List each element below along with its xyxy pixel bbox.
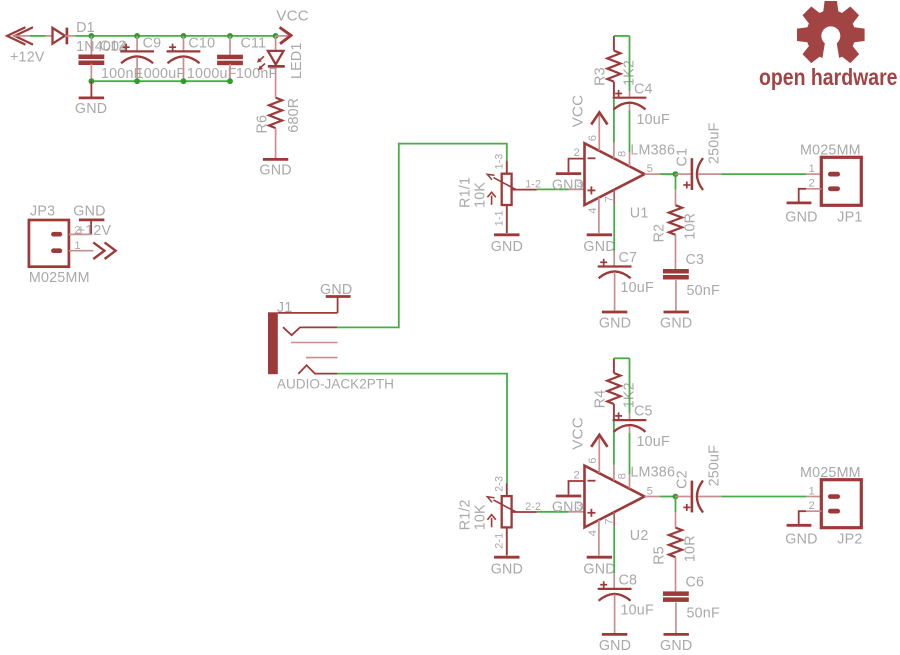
resistor R4 bbox=[607, 358, 620, 419]
svg-text:C9: C9 bbox=[143, 36, 162, 52]
svg-text:C3: C3 bbox=[686, 252, 705, 268]
svg-text:C4: C4 bbox=[634, 81, 653, 97]
connector JP2 box bbox=[821, 480, 861, 528]
wire wiper R1/1 to U1 bbox=[512, 188, 584, 190]
wire sleeve to R1/2 bbox=[337, 374, 507, 484]
svg-text:6: 6 bbox=[587, 135, 599, 141]
capacitor C1 bbox=[683, 158, 721, 190]
svg-text:C8: C8 bbox=[619, 572, 638, 588]
ground JP2 bbox=[787, 524, 812, 527]
label 1-1 bbox=[494, 210, 506, 226]
svg-text:M025MM: M025MM bbox=[29, 270, 90, 286]
label R5 bbox=[652, 546, 668, 565]
JP3 pin 1 contact bbox=[51, 248, 62, 253]
junction bot-C12 bbox=[89, 78, 95, 84]
junction output U2 bbox=[673, 494, 679, 500]
potentiometer R1/2 bbox=[487, 483, 516, 555]
svg-text:JP3: JP3 bbox=[30, 204, 55, 220]
jack J1 body bbox=[268, 312, 278, 374]
label 10uF C4 bbox=[637, 112, 670, 128]
capacitor C11 bbox=[217, 36, 243, 81]
label 1-3 bbox=[494, 153, 506, 169]
label R2 bbox=[652, 224, 668, 243]
pin 5 U1 bbox=[645, 173, 676, 175]
label pin5 U2 bbox=[647, 485, 653, 497]
label C1 bbox=[675, 148, 691, 167]
svg-text:GND: GND bbox=[660, 638, 692, 654]
label 2-2 bbox=[525, 501, 541, 513]
resistor R2 bbox=[669, 205, 682, 269]
svg-text:VCC: VCC bbox=[570, 95, 587, 128]
pin 4 U1 bbox=[598, 198, 600, 233]
svg-text:C5: C5 bbox=[634, 404, 653, 420]
ground pin4 U1 bbox=[587, 233, 612, 236]
wire wiper R1/2 to U2 bbox=[512, 511, 584, 513]
svg-text:1-1: 1-1 bbox=[494, 210, 506, 226]
svg-text:C11: C11 bbox=[241, 36, 267, 52]
svg-text:GND: GND bbox=[75, 101, 107, 117]
label 10uF C5 bbox=[637, 434, 670, 450]
label +12V bbox=[10, 49, 45, 65]
svg-text:M025MM: M025MM bbox=[800, 465, 861, 481]
op-amp U2 bbox=[585, 466, 645, 528]
svg-text:VCC: VCC bbox=[570, 417, 587, 450]
label 100nF C11 bbox=[236, 66, 278, 82]
jack tip contact bbox=[283, 327, 337, 335]
capacitor C3 bbox=[663, 269, 689, 280]
ground pin2 U1 bbox=[556, 172, 581, 175]
wire gain top U2 bbox=[614, 357, 630, 359]
label pin2 JP3 bbox=[74, 224, 80, 236]
svg-text:open hardware: open hardware bbox=[759, 64, 898, 90]
label C8 bbox=[619, 572, 638, 588]
svg-text:10R: 10R bbox=[683, 213, 699, 240]
svg-text:1-2: 1-2 bbox=[525, 179, 541, 191]
label C6 bbox=[686, 574, 705, 590]
capacitor C7 bbox=[598, 259, 632, 311]
svg-text:250uF: 250uF bbox=[706, 122, 722, 164]
label pin3 U2 bbox=[576, 500, 582, 512]
svg-text:R2: R2 bbox=[652, 224, 668, 243]
capacitor C6 bbox=[663, 591, 689, 602]
junction rail-C12 bbox=[89, 33, 95, 39]
label M025MM JP1 bbox=[800, 143, 861, 159]
junction rail-C9 bbox=[134, 33, 140, 39]
label 10uF C7 bbox=[621, 280, 654, 296]
label R6 bbox=[255, 115, 271, 134]
label 10R R5 bbox=[683, 535, 699, 562]
ground JP1 bbox=[787, 201, 812, 204]
label J1 bbox=[277, 300, 293, 316]
svg-text:250uF: 250uF bbox=[706, 445, 722, 487]
wire C3 to gnd bbox=[675, 280, 677, 311]
label VCC U1 bbox=[570, 95, 587, 128]
svg-text:2-1: 2-1 bbox=[494, 533, 506, 549]
label GND pin2 U1 bbox=[552, 177, 584, 193]
svg-text:JP1: JP1 bbox=[837, 209, 862, 225]
label GND pin4 U2 bbox=[583, 561, 615, 577]
wire C6 to gnd bbox=[675, 603, 677, 634]
label pin3 U1 bbox=[576, 178, 582, 190]
JP3 pin 2 contact bbox=[51, 232, 62, 237]
label M025MM JP3 bbox=[29, 270, 90, 286]
label pin7 U2 bbox=[604, 518, 616, 524]
svg-text:M025MM: M025MM bbox=[800, 143, 861, 159]
label AUDIO-JACK2PTH bbox=[277, 376, 394, 391]
JP1 pin 2 wire bbox=[799, 189, 822, 202]
label M025MM JP2 bbox=[800, 465, 861, 481]
label 2-3 bbox=[494, 476, 506, 492]
svg-text:7: 7 bbox=[604, 518, 616, 524]
label GND C3 bbox=[660, 315, 692, 331]
JP2 pin 2 contact bbox=[828, 509, 840, 514]
label 1N4004 bbox=[76, 39, 127, 55]
ground power rail bbox=[79, 81, 104, 98]
svg-text:JP2: JP2 bbox=[837, 532, 862, 548]
svg-text:50nF: 50nF bbox=[687, 605, 720, 621]
svg-text:+12V: +12V bbox=[10, 49, 45, 65]
svg-text:LM386: LM386 bbox=[630, 465, 675, 481]
label pin6 U2 bbox=[587, 457, 599, 463]
label D1 bbox=[76, 20, 95, 36]
label GND JP1 bbox=[785, 209, 817, 225]
svg-text:AUDIO-JACK2PTH: AUDIO-JACK2PTH bbox=[277, 376, 394, 391]
label GND power bbox=[75, 101, 107, 117]
JP3 pin 2 wire bbox=[69, 233, 91, 235]
supply +12V arrow JP3 bbox=[93, 242, 115, 259]
junction rail-C10 bbox=[181, 33, 187, 39]
label pin2 U2 bbox=[574, 469, 580, 481]
svg-text:10K: 10K bbox=[472, 504, 488, 530]
svg-text:2-3: 2-3 bbox=[494, 476, 506, 492]
pin 5 U2 bbox=[645, 496, 676, 498]
label R1/1 bbox=[458, 177, 474, 208]
LED LED1 bbox=[268, 36, 285, 98]
resistor R6 bbox=[269, 98, 282, 158]
JP2 pin 1 contact bbox=[828, 494, 840, 499]
label 1K2 R4 bbox=[622, 382, 638, 408]
LED1 arrows bbox=[257, 56, 265, 70]
label C4 bbox=[634, 81, 653, 97]
svg-text:C7: C7 bbox=[619, 250, 638, 266]
svg-text:8: 8 bbox=[617, 473, 629, 479]
label pin6 U1 bbox=[587, 135, 599, 141]
label C9 bbox=[143, 36, 162, 52]
label C12 bbox=[100, 38, 127, 54]
svg-text:2: 2 bbox=[809, 500, 815, 512]
svg-text:GND: GND bbox=[785, 209, 817, 225]
label C3 bbox=[686, 252, 705, 268]
label 1-2 bbox=[525, 179, 541, 191]
wire C2 to JP2 bbox=[721, 496, 821, 498]
label 50nF C3 bbox=[687, 283, 720, 299]
svg-text:GND: GND bbox=[599, 638, 631, 654]
potentiometer R1/1 bbox=[487, 161, 516, 233]
ground C6 bbox=[664, 633, 689, 636]
pin 6 U1 bbox=[591, 112, 607, 150]
svg-text:1000uF: 1000uF bbox=[136, 66, 186, 82]
svg-text:6: 6 bbox=[587, 457, 599, 463]
pin 8 U1 bbox=[613, 99, 615, 159]
label 1000uF C9 bbox=[136, 66, 186, 82]
wire out to C1 bbox=[676, 173, 691, 175]
resistor R5 bbox=[669, 528, 682, 592]
label JP1 bbox=[837, 209, 862, 225]
label C2 bbox=[675, 470, 691, 489]
junction bot-C10 bbox=[181, 78, 187, 84]
label pin4 U2 bbox=[587, 530, 599, 536]
svg-text:2: 2 bbox=[574, 469, 580, 481]
svg-text:U2: U2 bbox=[630, 528, 649, 544]
label pin8 U1 bbox=[617, 151, 629, 157]
ground R6 bbox=[263, 158, 288, 161]
label GND J1 bbox=[320, 282, 352, 298]
svg-text:5: 5 bbox=[647, 163, 653, 175]
svg-text:1: 1 bbox=[74, 240, 80, 252]
label 50nF C6 bbox=[687, 605, 720, 621]
svg-text:1: 1 bbox=[809, 163, 815, 175]
wire GND rail bottom bbox=[91, 80, 231, 82]
junction rail-LED bbox=[273, 33, 279, 39]
wire out to R5 bbox=[675, 497, 677, 528]
svg-text:R1/1: R1/1 bbox=[458, 177, 474, 208]
label GND R6 bbox=[259, 163, 291, 179]
label VCC U2 bbox=[570, 417, 587, 450]
svg-text:680R: 680R bbox=[286, 98, 302, 133]
jack top wire bbox=[278, 312, 338, 314]
label U1 bbox=[630, 205, 649, 221]
svg-text:2: 2 bbox=[574, 147, 580, 159]
label 1K2 R3 bbox=[622, 60, 638, 86]
svg-text:GND: GND bbox=[660, 315, 692, 331]
label GND JP3 bbox=[73, 204, 105, 220]
label C11 bbox=[241, 36, 267, 52]
svg-text:C10: C10 bbox=[188, 36, 215, 52]
svg-text:7: 7 bbox=[604, 196, 616, 202]
jack ring contact b bbox=[306, 357, 338, 359]
svg-text:4: 4 bbox=[587, 207, 599, 213]
svg-text:C6: C6 bbox=[686, 574, 705, 590]
wire pin2 U2 bbox=[569, 481, 584, 495]
label 2-1 bbox=[494, 533, 506, 549]
label GND C8 bbox=[599, 638, 631, 654]
JP2 pin 2 wire bbox=[799, 511, 822, 524]
svg-text:R4: R4 bbox=[593, 390, 609, 409]
label pin1 JP2 bbox=[809, 485, 815, 497]
label pin2 U1 bbox=[574, 147, 580, 159]
svg-text:VCC: VCC bbox=[276, 8, 309, 25]
wire gain top U1 bbox=[614, 35, 630, 37]
ground pin2 U2 bbox=[556, 495, 581, 498]
label 100nF C12 bbox=[101, 66, 143, 82]
label JP2 bbox=[837, 532, 862, 548]
svg-text:5: 5 bbox=[647, 485, 653, 497]
label GND R1/2 bbox=[491, 561, 523, 577]
svg-text:2: 2 bbox=[809, 178, 815, 190]
svg-text:3: 3 bbox=[576, 500, 582, 512]
wire VCC rail top bbox=[75, 35, 276, 37]
JP1 pin 1 contact bbox=[828, 172, 840, 177]
svg-text:2-2: 2-2 bbox=[525, 501, 541, 513]
svg-text:R3: R3 bbox=[593, 67, 609, 86]
label GND C7 bbox=[599, 315, 631, 331]
svg-text:GND: GND bbox=[583, 239, 615, 255]
ground C8 bbox=[602, 633, 627, 636]
label 1000uF C10 bbox=[187, 66, 237, 82]
svg-text:10K: 10K bbox=[472, 182, 488, 208]
svg-text:3: 3 bbox=[576, 178, 582, 190]
capacitor C9 bbox=[120, 36, 154, 81]
svg-text:10R: 10R bbox=[683, 535, 699, 562]
junction output U1 bbox=[673, 171, 679, 177]
resistor R3 bbox=[607, 36, 620, 97]
junction bot-C11 bbox=[227, 78, 233, 84]
pin 4 U2 bbox=[598, 520, 600, 555]
label pin8 U2 bbox=[617, 473, 629, 479]
ground J1 bbox=[326, 297, 351, 313]
label U2 bbox=[630, 528, 649, 544]
label 250uF C2 bbox=[706, 445, 722, 487]
open hardware logo text bbox=[759, 64, 898, 90]
label pin1 JP3 bbox=[74, 240, 80, 252]
diode D1 bbox=[53, 28, 76, 45]
JP1 pin 2 contact bbox=[828, 186, 840, 191]
svg-text:GND: GND bbox=[73, 204, 105, 220]
supply VCC arrow bbox=[276, 27, 291, 44]
capacitor C4 bbox=[613, 90, 647, 110]
svg-text:10uF: 10uF bbox=[637, 112, 670, 128]
pin 6 U2 bbox=[591, 435, 607, 473]
svg-text:100nF: 100nF bbox=[236, 66, 278, 82]
ground JP3 bbox=[79, 220, 105, 235]
label 10R R2 bbox=[683, 213, 699, 240]
wire out to R2 bbox=[675, 174, 677, 205]
label LED1 bbox=[289, 42, 305, 79]
capacitor C2 bbox=[683, 481, 721, 513]
label GND JP2 bbox=[785, 532, 817, 548]
label 250uF C1 bbox=[706, 122, 722, 164]
svg-text:10uF: 10uF bbox=[621, 602, 654, 618]
label GND pin4 U1 bbox=[583, 239, 615, 255]
label JP3 bbox=[30, 204, 55, 220]
label VCC top bbox=[276, 8, 309, 25]
capacitor C10 bbox=[167, 36, 201, 81]
label 10uF C8 bbox=[621, 602, 654, 618]
label GND C6 bbox=[660, 638, 692, 654]
svg-text:4: 4 bbox=[587, 530, 599, 536]
jack sleeve contact bbox=[298, 365, 337, 374]
svg-text:C1: C1 bbox=[675, 148, 691, 167]
pin 7 U1 bbox=[613, 190, 615, 266]
ground R1/2 bbox=[494, 556, 519, 559]
svg-text:1: 1 bbox=[809, 485, 815, 497]
jack ring contact a bbox=[291, 342, 338, 344]
wire pin2 U1 bbox=[569, 159, 584, 173]
svg-text:8: 8 bbox=[617, 151, 629, 157]
junction rail-C11 bbox=[227, 33, 233, 39]
wire pin1 U1 bbox=[629, 104, 631, 166]
label pin5 U1 bbox=[647, 163, 653, 175]
label pin1 JP1 bbox=[809, 163, 815, 175]
svg-text:GND: GND bbox=[583, 561, 615, 577]
svg-text:R5: R5 bbox=[652, 546, 668, 565]
label LM386 U2 bbox=[630, 465, 675, 481]
svg-text:LED1: LED1 bbox=[289, 42, 305, 79]
label C5 bbox=[634, 404, 653, 420]
wire C-top C4 bbox=[629, 36, 631, 97]
pin 7 U2 bbox=[613, 512, 615, 588]
wire pin1 U2 bbox=[629, 426, 631, 488]
capacitor C8 bbox=[598, 581, 632, 633]
label 680R bbox=[286, 98, 302, 133]
svg-text:50nF: 50nF bbox=[687, 283, 720, 299]
label LM386 U1 bbox=[630, 142, 675, 158]
ground pin4 U2 bbox=[587, 556, 612, 559]
label pin2 JP2 bbox=[809, 500, 815, 512]
svg-text:GND: GND bbox=[785, 532, 817, 548]
JP3 pin 1 wire bbox=[69, 250, 93, 252]
svg-text:10uF: 10uF bbox=[637, 434, 670, 450]
supply +12V arrow bbox=[7, 27, 33, 44]
label GND R1/1 bbox=[491, 239, 523, 255]
label 10K R1/1 bbox=[472, 182, 488, 208]
connector JP1 box bbox=[821, 157, 861, 205]
label +12V JP3 bbox=[77, 223, 112, 239]
capacitor C12 bbox=[79, 36, 105, 81]
label GND pin2 U2 bbox=[552, 500, 584, 516]
label 10K R1/2 bbox=[472, 504, 488, 530]
wire tip to R1/1 bbox=[337, 144, 507, 328]
op-amp U1 bbox=[585, 143, 645, 205]
ground R1/1 bbox=[494, 233, 519, 236]
label R3 bbox=[593, 67, 609, 86]
svg-text:+12V: +12V bbox=[77, 223, 112, 239]
label C7 bbox=[619, 250, 638, 266]
ground C3 bbox=[664, 311, 689, 314]
label pin7 U1 bbox=[604, 196, 616, 202]
label pin4 U1 bbox=[587, 207, 599, 213]
capacitor C5 bbox=[613, 412, 647, 432]
label pin2 JP1 bbox=[809, 178, 815, 190]
svg-text:R1/2: R1/2 bbox=[458, 499, 474, 530]
ground C7 bbox=[602, 311, 627, 314]
svg-text:R6: R6 bbox=[255, 115, 271, 134]
svg-text:GND: GND bbox=[491, 239, 523, 255]
svg-text:GND: GND bbox=[599, 315, 631, 331]
svg-text:U1: U1 bbox=[630, 205, 649, 221]
svg-text:C2: C2 bbox=[675, 470, 691, 489]
svg-text:10uF: 10uF bbox=[621, 280, 654, 296]
label R1/2 bbox=[458, 499, 474, 530]
svg-text:GND: GND bbox=[320, 282, 352, 298]
svg-text:LM386: LM386 bbox=[630, 142, 675, 158]
svg-text:1-3: 1-3 bbox=[494, 153, 506, 169]
label R4 bbox=[593, 390, 609, 409]
wire +12V to diode bbox=[30, 35, 53, 37]
label C10 bbox=[188, 36, 215, 52]
junction bot-C9 bbox=[134, 78, 140, 84]
open hardware logo gear bbox=[797, 1, 865, 63]
wire C-top C5 bbox=[629, 358, 631, 419]
wire out to C2 bbox=[676, 496, 691, 498]
connector JP3 box bbox=[29, 220, 69, 267]
svg-text:GND: GND bbox=[259, 163, 291, 179]
svg-text:GND: GND bbox=[491, 561, 523, 577]
wire C1 to JP1 bbox=[721, 173, 821, 175]
pin 8 U2 bbox=[613, 421, 615, 481]
